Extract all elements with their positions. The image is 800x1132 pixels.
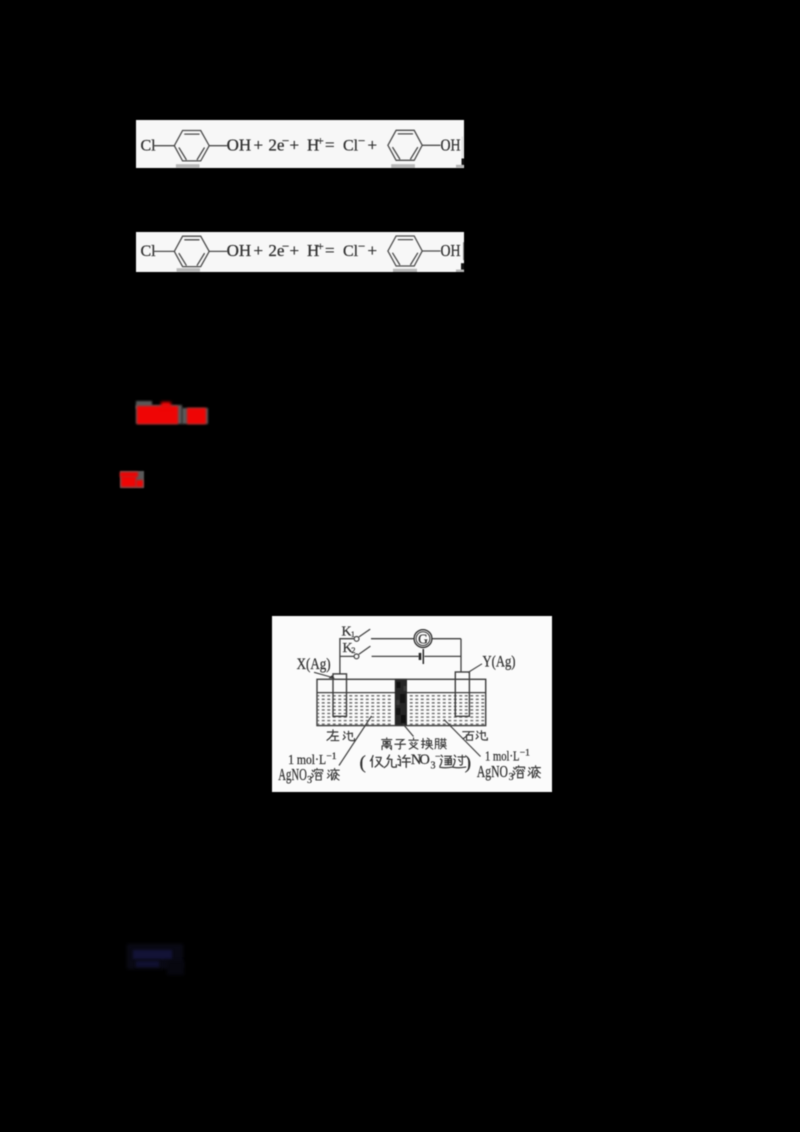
equation strip 1 (chemical equation image) bbox=[136, 120, 464, 168]
gray shadow under ring1 bbox=[176, 164, 200, 167]
switch K1 contact bbox=[354, 636, 359, 641]
svg-text:(: ( bbox=[360, 752, 366, 773]
svg-text:G: G bbox=[418, 631, 428, 646]
equation content strip2 bbox=[141, 236, 461, 267]
red answer mark A (blurred red text on gray) bbox=[136, 401, 209, 425]
tank liquid dash texture bbox=[318, 693, 485, 724]
battery cell bbox=[419, 652, 422, 659]
white margin around membrane bbox=[392, 680, 410, 725]
switch K2 contact bbox=[354, 654, 359, 659]
black curl bottom right bbox=[461, 263, 464, 270]
svg-text:3: 3 bbox=[307, 774, 312, 785]
label 右池 bbox=[463, 731, 474, 739]
electrochemical cell diagram box bbox=[272, 616, 552, 793]
wire G to right corner bbox=[432, 637, 461, 639]
black notch bottom right bbox=[462, 158, 465, 165]
svg-text:AgNO: AgNO bbox=[278, 765, 307, 784]
gray notch bottom right bbox=[456, 164, 464, 167]
svg-text:): ) bbox=[465, 752, 471, 773]
galvanometer G bbox=[414, 629, 432, 647]
svg-text:−1: −1 bbox=[520, 748, 530, 758]
pointer line to right solution label bbox=[444, 719, 481, 756]
svg-text:2: 2 bbox=[351, 645, 355, 655]
svg-text:1: 1 bbox=[351, 628, 355, 638]
equation strip 2 (chemical equation image, duplicate) bbox=[136, 232, 464, 272]
gray shadow under ring2 bbox=[393, 269, 417, 272]
label 左池 bbox=[327, 729, 339, 740]
left wire bbox=[340, 638, 354, 673]
circuit wires bbox=[340, 638, 461, 673]
pointer line to left solution label bbox=[339, 716, 372, 766]
switch K1 lever bbox=[359, 629, 370, 637]
label 离子交换膜 bbox=[382, 737, 392, 749]
equation content strip1 bbox=[141, 130, 461, 161]
wire K2 to battery bbox=[372, 655, 419, 657]
svg-text:Y(Ag): Y(Ag) bbox=[483, 653, 516, 670]
svg-text:3: 3 bbox=[509, 772, 514, 783]
wire switch K1 to G bbox=[371, 637, 414, 639]
gray shadow under ring2 bbox=[391, 164, 415, 168]
svg-text:−1: −1 bbox=[326, 752, 336, 762]
left electrode X bbox=[333, 673, 347, 715]
tank outline bbox=[317, 679, 486, 725]
X pointer with arrowhead bbox=[314, 672, 332, 677]
switch K2 lever bbox=[359, 646, 371, 654]
pointer line membrane label bbox=[403, 724, 414, 737]
faint right edge line bbox=[462, 136, 463, 160]
right electrode Y bbox=[455, 672, 469, 716]
Y pointer bbox=[468, 663, 482, 672]
ion exchange membrane (dark bar) bbox=[395, 678, 407, 725]
gray notch bottom right bbox=[456, 269, 464, 272]
svg-text:X(Ag): X(Ag) bbox=[297, 655, 331, 672]
svg-text:AgNO: AgNO bbox=[477, 761, 508, 780]
dark navy blob bottom left bbox=[127, 944, 184, 975]
svg-text:NO: NO bbox=[411, 751, 430, 767]
svg-text:−: − bbox=[435, 751, 441, 762]
red answer mark B (blurred red text on gray) bbox=[120, 471, 145, 488]
dark right edge line bbox=[463, 242, 464, 260]
gray shadow under ring1 bbox=[177, 268, 200, 271]
liquid surface line bbox=[317, 691, 486, 693]
right wire down to electrode bbox=[460, 638, 462, 671]
wire battery to right wire bbox=[424, 655, 461, 657]
